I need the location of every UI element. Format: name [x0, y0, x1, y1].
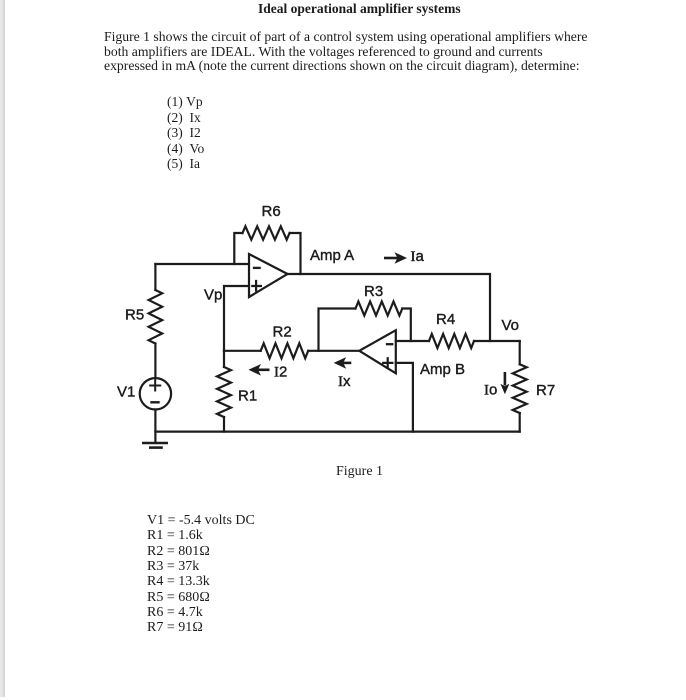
wire: left branch vertical (top) — [154, 264, 156, 290]
resistor R5 — [149, 290, 163, 344]
svg-text:Amp B: Amp B — [420, 361, 465, 378]
Amp A plus sign — [252, 281, 261, 291]
wire: R7 bottom to rail — [519, 413, 521, 432]
resistor R1 — [217, 367, 231, 417]
svg-text:R1: R1 — [238, 388, 257, 405]
figure caption — [336, 464, 383, 480]
wire: Vp node to R2 — [224, 350, 261, 352]
resistor R2 — [261, 343, 309, 358]
wire: bottom rail — [155, 431, 519, 433]
wire: Vo corner down to R7 — [519, 341, 521, 364]
wire: top-left horizontal to inverting input of Amp A — [155, 263, 249, 265]
wire: R4 to Vo corner — [474, 340, 520, 342]
svg-text:R5: R5 — [125, 307, 144, 324]
op-amp U2 Amp B — [359, 330, 396, 373]
svg-text:Amp A: Amp A — [310, 247, 354, 264]
svg-text:Vp: Vp — [204, 287, 222, 304]
voltage source V1 — [140, 378, 171, 409]
resistor R4 — [429, 334, 474, 348]
ground — [143, 443, 166, 448]
svg-text:Vo: Vo — [502, 317, 520, 334]
Amp A minus sign — [254, 267, 260, 269]
svg-text:R2: R2 — [273, 324, 292, 341]
question list — [167, 94, 204, 172]
svg-text:R7: R7 — [536, 382, 555, 399]
svg-text:V1: V1 — [117, 384, 135, 401]
Amp B minus sign — [387, 343, 392, 345]
svg-text:Ia: Ia — [411, 248, 425, 265]
current arrow Ix — [334, 357, 352, 369]
svg-text:R6: R6 — [262, 203, 281, 220]
svg-text:R4: R4 — [436, 311, 455, 328]
svg-text:R3: R3 — [364, 283, 383, 300]
paragraph — [104, 30, 644, 74]
resistor R3 — [356, 302, 403, 316]
wire: Amp B minus input to R4 — [396, 340, 429, 342]
svg-text:Io: Io — [484, 382, 497, 399]
wire: R1 bottom to rail — [223, 417, 225, 432]
op-amp U1 Amp A — [249, 254, 288, 297]
current arrow Io — [500, 372, 509, 394]
wire: feedback right vertical to output — [290, 233, 301, 274]
current arrow I2 — [249, 364, 270, 376]
component values — [147, 513, 255, 636]
wire: Amp B plus input down to rail — [396, 363, 413, 432]
wire: V1 bottom to ground — [154, 410, 156, 444]
wire: Vp plus-input wire — [224, 286, 249, 351]
wire: feedback left vertical — [234, 233, 242, 264]
wire: R3 left vertical from output node — [319, 309, 356, 351]
resistor R6 — [243, 226, 290, 239]
wire: R5 bottom to V1 top — [154, 344, 156, 379]
title — [258, 1, 461, 17]
wire: R2 to Amp B output apex — [308, 350, 359, 352]
svg-text:Ix: Ix — [338, 373, 351, 390]
left gray edge strip — [0, 0, 5, 697]
Amp B plus sign — [383, 358, 392, 368]
node Vp junction to R1 — [223, 351, 225, 367]
current arrow Ia — [384, 252, 407, 264]
svg-text:I2: I2 — [274, 364, 287, 381]
wire: R3 right vertical down to minus wire — [402, 309, 411, 342]
resistor R7 — [513, 364, 527, 413]
wire: Amp A output to right vertical — [288, 274, 491, 341]
